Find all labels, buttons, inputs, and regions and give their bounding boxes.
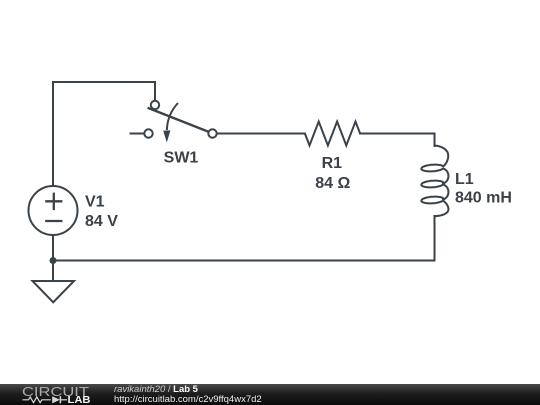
resistor R1: [305, 122, 360, 146]
V1 minus sign: [45, 220, 62, 222]
junction node at ground: [50, 257, 57, 264]
V1 plus sign: [45, 200, 62, 202]
voltage source V1: [29, 186, 78, 235]
svg-text:http://circuitlab.com/c2v9ffq4: http://circuitlab.com/c2v9ffq4wx7d2: [114, 394, 262, 405]
ground symbol: [33, 261, 75, 303]
switch SW1: [130, 101, 217, 138]
switch actuation arc: [167, 103, 178, 130]
wire: open stub left of SW1: [130, 133, 145, 135]
CircuitLab logo: diode symbol: [52, 396, 60, 403]
svg-text:84 V: 84 V: [85, 213, 118, 230]
CircuitLab logo: resistor squiggle: [23, 397, 51, 403]
svg-text:LAB: LAB: [68, 395, 91, 405]
wire: resistor to top-right corner and down: [360, 134, 434, 147]
svg-text:SW1: SW1: [164, 150, 199, 167]
switch blade: [148, 108, 210, 132]
wire: top rail: [53, 81, 155, 83]
wire: switch common to resistor: [217, 133, 305, 135]
wire: left vertical (top rail to V1 top): [52, 82, 54, 186]
svg-text:R1: R1: [322, 155, 343, 172]
svg-text:840 mH: 840 mH: [455, 190, 512, 207]
switch throw terminal (left, open): [144, 129, 152, 137]
wire: V1 bottom to ground node: [52, 236, 54, 261]
wire: drop to switch top terminal: [154, 82, 156, 101]
svg-text:L1: L1: [455, 171, 474, 188]
V1 circle body: [29, 186, 78, 235]
inductor L1: [421, 146, 448, 217]
switch throw terminal (top): [151, 101, 159, 109]
wire: inductor bottom to bottom-right corner: [434, 216, 436, 261]
svg-text:84 Ω: 84 Ω: [315, 175, 350, 192]
wire: bottom rail: [53, 260, 435, 262]
switch arrow head: [163, 130, 170, 142]
svg-text:V1: V1: [85, 194, 105, 211]
switch common terminal (right): [208, 129, 216, 137]
